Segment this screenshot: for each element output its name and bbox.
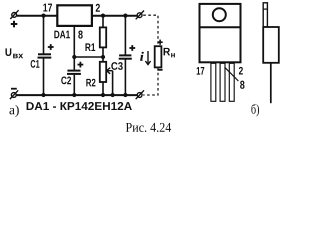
package tab divider — [200, 26, 241, 28]
wire top rail right — [93, 15, 137, 17]
IC DA1 KP142EH12A box — [57, 5, 92, 26]
node C2 bottom — [72, 93, 76, 97]
package side tab — [263, 3, 267, 27]
caption a) — [9, 105, 18, 117]
wire wiper down — [112, 71, 114, 95]
caption Ris 4.24 — [126, 123, 171, 132]
plus sign C1 — [48, 44, 54, 50]
plus sign C2 — [78, 62, 84, 68]
label Uvx — [5, 48, 11, 56]
wire top rail left — [17, 15, 57, 17]
wire R1 bottom — [102, 47, 104, 57]
wire C1 bottom — [43, 58, 45, 95]
bottom terminal left — [10, 90, 18, 99]
plus sign C3 — [129, 45, 135, 51]
wire C2 bottom — [73, 75, 75, 95]
wire C3 top — [124, 16, 126, 55]
pin 17 front — [211, 63, 216, 101]
plus sign RH — [158, 40, 163, 45]
node pin8/C2 — [72, 55, 76, 59]
wiper arrow R2 — [107, 68, 113, 74]
wire C1 top — [43, 16, 45, 54]
wire C2 top — [73, 57, 75, 70]
label 8 pin — [78, 30, 82, 38]
wire pin8 to R1R2 — [74, 56, 103, 58]
resistor R1 — [100, 27, 106, 47]
node wiper bottom — [111, 93, 115, 97]
label 2 pin — [96, 4, 100, 12]
node rail/R1 — [101, 14, 105, 18]
dashed wire to load top — [143, 15, 158, 46]
package side lead — [270, 63, 272, 103]
wire pin8 down — [73, 26, 75, 57]
pin 2 front — [229, 63, 234, 101]
label i current — [140, 52, 144, 61]
wire R2 top — [102, 57, 104, 62]
minus sign input — [11, 88, 17, 90]
capacitor C1 — [38, 54, 52, 57]
input terminal + — [10, 10, 18, 19]
wire R2 bottom — [102, 82, 104, 95]
capacitor C3 — [119, 55, 132, 58]
label 17 pin — [43, 4, 52, 12]
wire R1 top — [102, 16, 104, 28]
label DA1 — [54, 31, 70, 39]
load resistor RH — [155, 46, 162, 67]
package front body — [200, 4, 241, 62]
pin 8 front — [220, 63, 225, 101]
current arrow down — [145, 51, 150, 65]
node R2 bottom — [101, 93, 105, 97]
label C1 — [31, 60, 40, 68]
package hole — [213, 8, 226, 21]
node R1/R2 — [101, 55, 105, 59]
node C1 bottom — [41, 93, 45, 97]
label RH — [164, 48, 171, 56]
wire bottom rail — [16, 94, 137, 96]
label 8 package — [240, 81, 244, 89]
resistor R2 — [100, 62, 106, 82]
node input/C1 — [41, 14, 45, 18]
output terminal bottom — [136, 90, 144, 99]
caption DA1 type — [27, 102, 132, 110]
wire C3 bottom — [124, 60, 126, 96]
plus sign input — [11, 21, 17, 28]
label C2 — [61, 77, 71, 85]
capacitor C2 — [67, 71, 81, 74]
label R1 — [85, 43, 95, 51]
node C3 bottom — [123, 93, 127, 97]
label 17 package — [197, 67, 205, 75]
label R2 — [86, 79, 95, 87]
caption b) — [251, 104, 259, 117]
label 2 package — [239, 67, 243, 75]
minus sign RH — [157, 69, 162, 71]
tab hole side — [263, 8, 267, 10]
dashed wire to load bottom — [143, 68, 158, 95]
package side body — [263, 27, 279, 63]
label C3 — [111, 62, 122, 70]
output terminal top — [136, 11, 144, 20]
leader line pin 8 — [225, 67, 239, 81]
node rail/C3 — [123, 14, 127, 18]
